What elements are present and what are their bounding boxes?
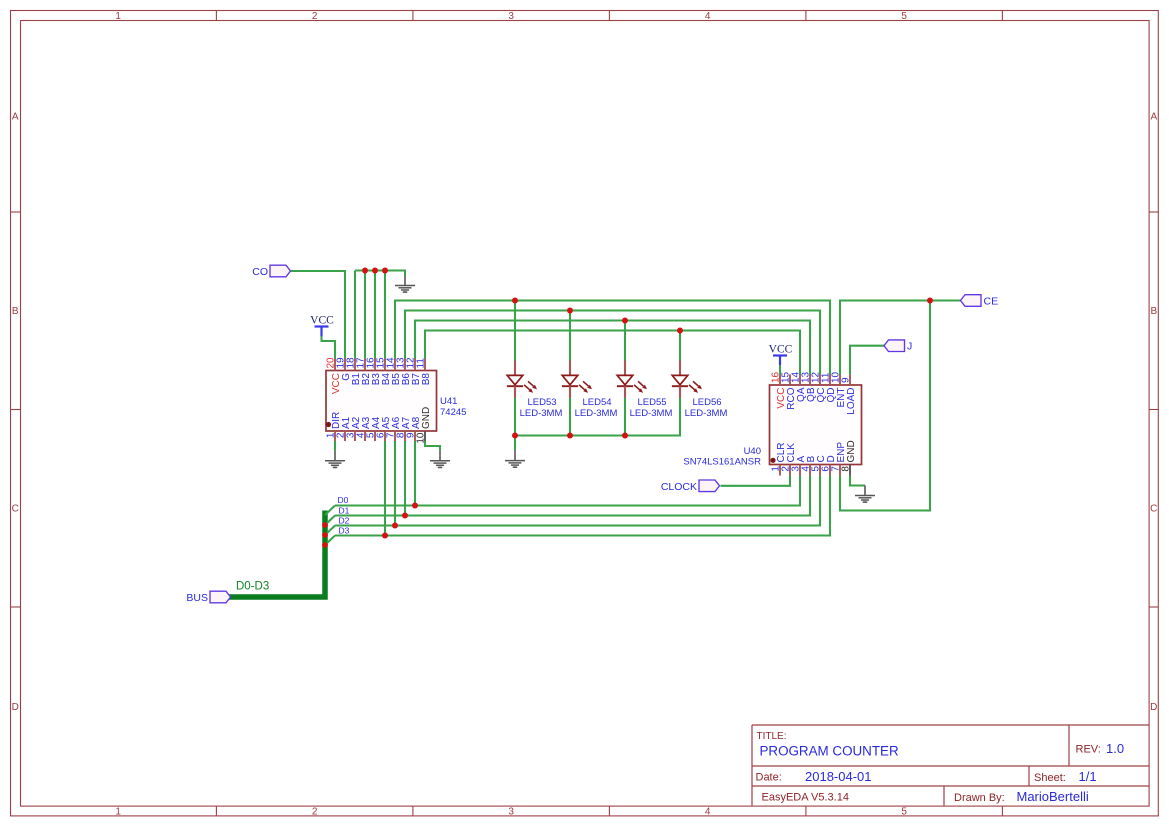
wire net row B8/QA/LED56	[425, 331, 800, 375]
svg-text:LED-3MM: LED-3MM	[520, 408, 563, 419]
junction bus D2	[322, 532, 328, 538]
junction LED53 anode	[512, 298, 518, 304]
svg-text:Date:: Date:	[756, 772, 782, 784]
bus D0-D3 thick	[229, 511, 326, 598]
svg-text:U40: U40	[744, 446, 761, 457]
ground U41 pin10	[430, 451, 450, 468]
svg-text:CLOCK: CLOCK	[661, 481, 697, 493]
svg-text:D: D	[12, 702, 19, 713]
wire D2	[335, 476, 820, 526]
frame row letters right	[1150, 112, 1157, 714]
wire D1	[335, 476, 810, 516]
svg-text:CO: CO	[252, 266, 268, 278]
wire B4 drop	[384, 271, 386, 359]
svg-text:LOAD: LOAD	[846, 388, 857, 415]
frame row ticks left	[11, 212, 21, 607]
ground U41 DIR	[325, 451, 345, 468]
junction LED53 cathode	[512, 433, 518, 439]
LED56 labels	[685, 397, 728, 419]
wire LED55 anode drop	[624, 321, 626, 361]
U41 bottom pin names	[331, 407, 432, 429]
svg-text:C: C	[12, 504, 19, 515]
junction A7/D1	[402, 513, 408, 519]
svg-text:1/1: 1/1	[1079, 769, 1097, 784]
diode LED55 (LED-3MM)	[617, 361, 647, 399]
wire U41 pin10 GND to gnd	[425, 441, 440, 451]
wire ENT to CE	[840, 301, 961, 375]
svg-text:PROGRAM COUNTER: PROGRAM COUNTER	[760, 744, 899, 759]
wire J to LOAD pin9	[850, 346, 884, 375]
svg-text:5: 5	[901, 11, 907, 22]
svg-text:2: 2	[312, 807, 318, 818]
wire D0	[335, 476, 800, 506]
svg-text:D: D	[1150, 702, 1157, 713]
wire D3	[335, 476, 830, 536]
svg-text:D3: D3	[339, 525, 350, 535]
svg-text:LED-3MM: LED-3MM	[575, 408, 618, 419]
svg-text:SN74LS161ANSR: SN74LS161ANSR	[683, 457, 761, 468]
wire A7 to D1	[404, 441, 406, 516]
svg-text:VCC: VCC	[769, 344, 793, 356]
svg-text:LED55: LED55	[637, 397, 666, 408]
wire U41 pin1 DIR to gnd	[334, 441, 336, 451]
net flag CE	[961, 295, 999, 308]
wire LED55 cathode drop	[624, 398, 626, 436]
svg-text:D2: D2	[339, 515, 350, 525]
bus entry D0	[325, 506, 335, 516]
junction B3	[372, 268, 378, 274]
diode LED54 (LED-3MM)	[562, 361, 592, 399]
svg-text:TITLE:: TITLE:	[757, 731, 787, 742]
wire B1-B4 gnd tie bar	[355, 271, 405, 276]
net flag CO	[252, 265, 290, 278]
svg-text:8: 8	[841, 466, 852, 472]
svg-text:11: 11	[416, 358, 427, 369]
junction A5/D3	[382, 533, 388, 539]
bus entry D2	[325, 526, 335, 536]
wire A8 to D0	[414, 441, 416, 506]
svg-text:D1: D1	[339, 505, 350, 515]
wire CO flag to U41 pin19 G	[291, 271, 346, 359]
wire LED cathode bus	[515, 398, 680, 436]
svg-text:GND: GND	[846, 440, 857, 462]
power VCC U40	[769, 344, 793, 366]
wire LED53 cathode drop	[514, 398, 516, 451]
svg-text:B: B	[12, 306, 19, 317]
net flag J	[884, 340, 912, 353]
wire LED54 anode drop	[569, 311, 571, 361]
wire CLOCK to CLK pin2	[721, 476, 791, 486]
junction CE net	[927, 298, 933, 304]
wire LED56 anode drop	[679, 331, 681, 361]
ground B1-B4 net	[395, 276, 415, 293]
svg-text:GND: GND	[421, 407, 432, 429]
frame row ticks right	[1149, 212, 1158, 607]
wire U40 pin8 to gnd	[850, 476, 865, 486]
svg-text:U41: U41	[440, 396, 457, 407]
svg-text:LED53: LED53	[527, 397, 556, 408]
junction LED54 anode	[567, 308, 573, 314]
svg-text:3: 3	[508, 11, 514, 22]
svg-text:D0-D3: D0-D3	[236, 581, 269, 593]
net flag CLOCK	[661, 480, 720, 493]
frame column numbers top	[115, 11, 907, 22]
U41 bottom pin numbers	[326, 432, 427, 444]
op-amp U41 body (74245)	[326, 371, 437, 432]
svg-text:LED-3MM: LED-3MM	[630, 408, 673, 419]
junction LED54 cathode	[567, 433, 573, 439]
svg-text:CE: CE	[984, 296, 999, 308]
bus entry D1	[325, 516, 335, 526]
U41 top pin numbers	[326, 357, 427, 369]
svg-text:4: 4	[705, 807, 711, 818]
U41 pin-1 dot	[326, 422, 331, 427]
wire net row B6/QC/LED54	[405, 311, 820, 375]
svg-text:MarioBertelli: MarioBertelli	[1017, 789, 1089, 804]
wire LED53 anode drop	[514, 301, 516, 361]
wire net row B5/QD/LED53	[395, 301, 830, 375]
wire A5 to D3	[384, 441, 386, 536]
svg-text:2: 2	[312, 11, 318, 22]
svg-text:4: 4	[705, 11, 711, 22]
svg-text:74245: 74245	[440, 407, 466, 418]
U40 top pin numbers	[771, 371, 852, 383]
svg-text:B8: B8	[421, 373, 432, 386]
wire CE branch down to ENP	[840, 301, 930, 511]
svg-text:3: 3	[508, 807, 514, 818]
wire VCC to U41 pin20	[322, 336, 336, 359]
junction LED56 anode	[677, 328, 683, 334]
diode LED53 (LED-3MM)	[507, 361, 537, 399]
svg-text:9: 9	[841, 377, 852, 383]
junction LED55 cathode	[622, 433, 628, 439]
LED54 labels	[575, 397, 618, 419]
svg-text:BUS: BUS	[186, 592, 208, 604]
svg-text:A: A	[12, 112, 19, 123]
title block frame	[752, 725, 1149, 806]
svg-text:Sheet:: Sheet:	[1034, 772, 1066, 784]
svg-text:VCC: VCC	[310, 315, 334, 327]
U41 bottom pins	[335, 431, 425, 441]
junction A8/D0	[412, 503, 418, 509]
svg-text:REV:: REV:	[1076, 744, 1101, 756]
wire B2 drop	[364, 271, 366, 359]
U40 pin-1 dot	[770, 458, 775, 463]
U41 top pin names	[331, 373, 432, 395]
svg-text:J: J	[907, 341, 912, 353]
svg-text:1: 1	[115, 11, 121, 22]
svg-text:D0: D0	[338, 495, 349, 505]
ground LED cathodes	[505, 451, 525, 468]
svg-text:EasyEDA V5.3.14: EasyEDA V5.3.14	[762, 792, 849, 804]
svg-text:2018-04-01: 2018-04-01	[805, 769, 872, 784]
diode LED56 (LED-3MM)	[672, 361, 702, 399]
svg-text:C: C	[1150, 504, 1157, 515]
frame column ticks top	[216, 11, 1002, 21]
svg-text:1.0: 1.0	[1106, 741, 1124, 756]
wire B1 drop	[354, 271, 356, 359]
U40 bottom pin names	[776, 440, 857, 462]
svg-text:LED54: LED54	[582, 397, 611, 408]
bus entry D3	[325, 536, 335, 546]
ground U40 pin8	[855, 486, 875, 503]
frame column numbers bottom	[115, 807, 907, 818]
junction bus D3	[322, 542, 328, 548]
svg-text:B: B	[1150, 306, 1157, 317]
LED53 labels	[520, 397, 563, 419]
U41 top pins	[335, 359, 425, 371]
power VCC U41	[310, 315, 334, 337]
svg-text:Drawn By:: Drawn By:	[954, 792, 1005, 804]
svg-text:A: A	[1150, 112, 1157, 123]
U40 top pins	[780, 375, 850, 386]
junction bus D1	[322, 522, 328, 528]
LED55 labels	[630, 397, 673, 419]
frame row letters left	[12, 112, 19, 714]
frame column ticks bottom	[216, 806, 1002, 816]
junction A6/D2	[392, 523, 398, 529]
net flag BUS	[186, 591, 230, 604]
junction B2	[362, 268, 368, 274]
svg-text:5: 5	[901, 807, 907, 818]
wire VCC to U40 pin16	[779, 365, 781, 374]
wire net row B7/QB/LED55	[415, 321, 810, 375]
wire A6 to D2	[394, 441, 396, 526]
svg-text:LED-3MM: LED-3MM	[685, 408, 728, 419]
U40 top pin names	[776, 387, 857, 415]
U40 bottom pins	[780, 465, 850, 476]
junction B4	[382, 268, 388, 274]
svg-text:1: 1	[115, 807, 121, 818]
wire LED54 cathode drop	[569, 398, 571, 436]
junction LED55 anode	[622, 318, 628, 324]
svg-text:LED56: LED56	[692, 397, 721, 408]
U40 bottom pin numbers	[771, 466, 852, 472]
wire B3 drop	[374, 271, 376, 359]
transistor U40 body (SN74LS161ANSR counter)	[770, 385, 862, 465]
